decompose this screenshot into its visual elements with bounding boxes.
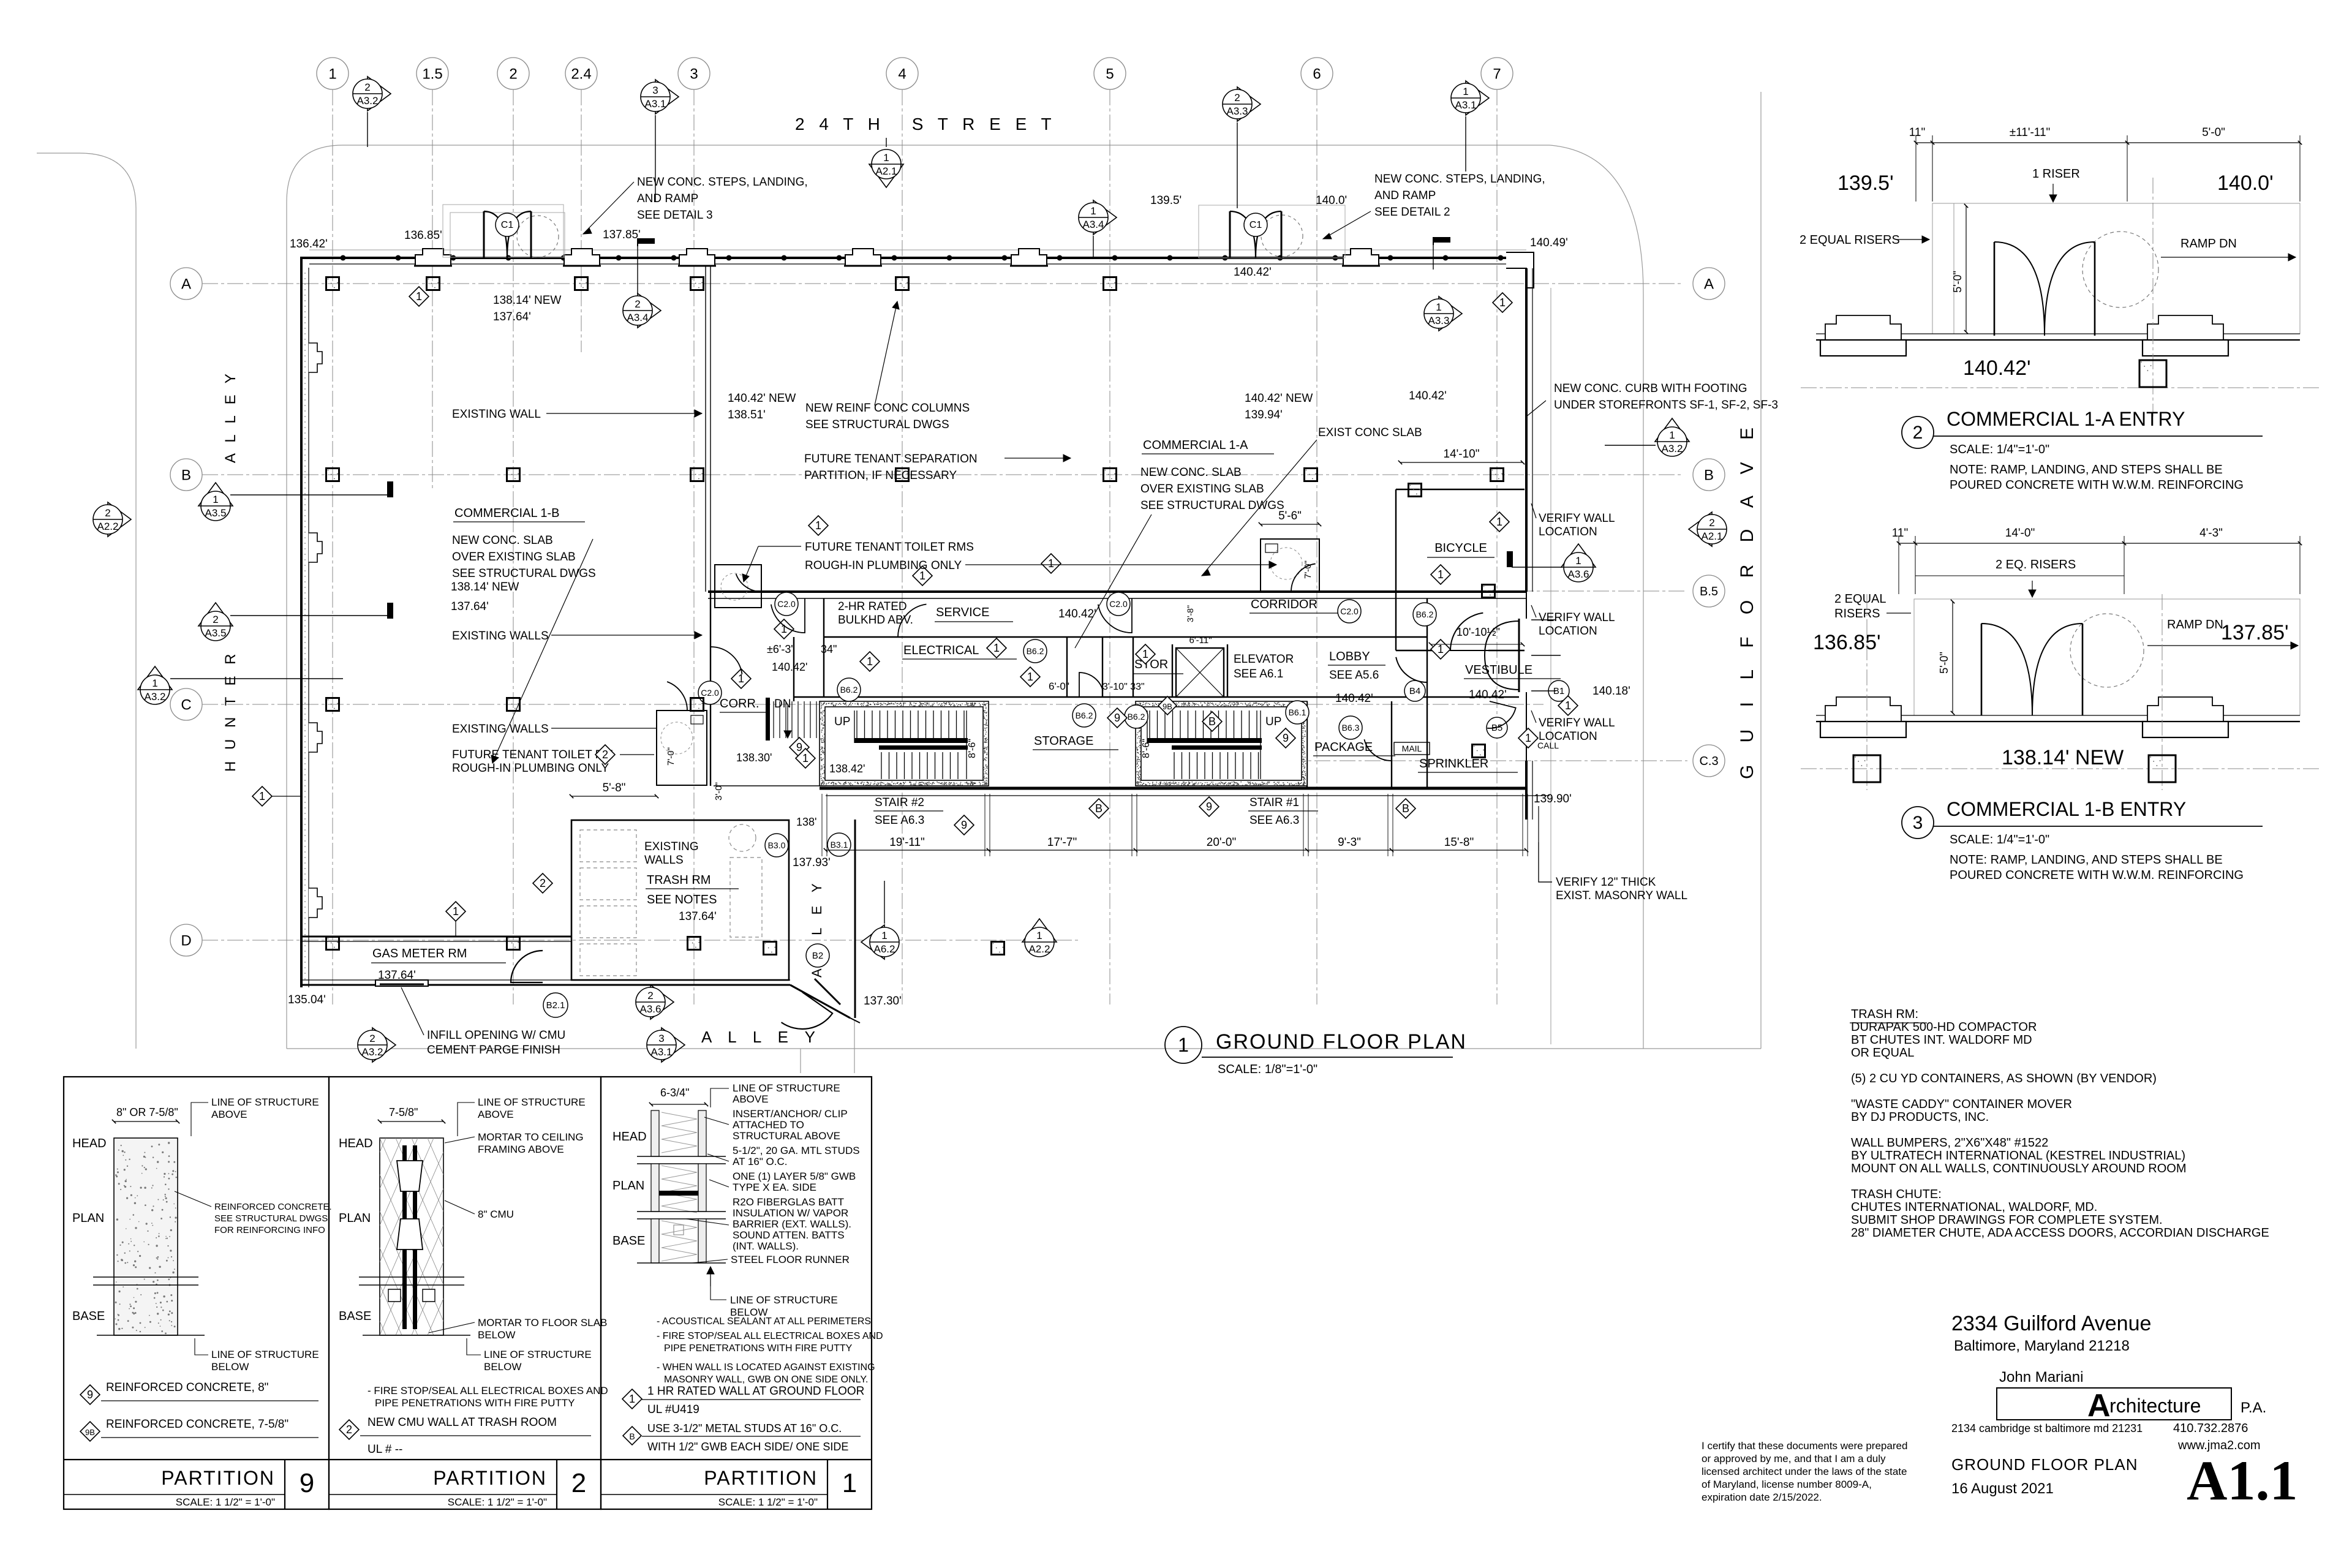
svg-text:34": 34" — [821, 643, 837, 655]
column at (543,1540) — [326, 937, 339, 950]
svg-text:SERVICE: SERVICE — [936, 606, 989, 619]
svg-text:139.90': 139.90' — [1534, 793, 1572, 805]
arrowhead det3 — [583, 228, 592, 234]
room label SPRINKLER — [1418, 757, 1518, 772]
svg-text:B: B — [181, 467, 191, 483]
svg-text:ABOVE: ABOVE — [211, 1109, 247, 1120]
keynote diamond 1 (left wall) — [252, 786, 272, 806]
corr door (C2.0 low) — [710, 647, 742, 679]
lobby-vestibule door (B4) — [1396, 650, 1427, 682]
svg-text:5: 5 — [1106, 66, 1114, 82]
core partition wall (package west) — [1306, 701, 1308, 788]
column at (1812,775) — [1104, 469, 1117, 481]
door tag B6.2 — [1413, 603, 1436, 626]
svg-text:B2: B2 — [812, 951, 823, 961]
svg-text:HEAD: HEAD — [612, 1130, 647, 1144]
svg-text:- FIRE STOP/SEAL ALL ELECTRICA: - FIRE STOP/SEAL ALL ELECTRICAL BOXES AN… — [657, 1331, 883, 1341]
note NEW CONC STEPS (det 2) — [1323, 173, 1545, 239]
svg-text:B: B — [1402, 802, 1409, 815]
detail 3 landing, doors and turning circle — [1914, 599, 2300, 715]
marker 1/A3.6 (right) — [1561, 544, 1596, 582]
core south wall — [714, 786, 1550, 796]
svg-text:2: 2 — [509, 66, 517, 82]
svg-text:SEE A6.3: SEE A6.3 — [875, 814, 924, 827]
door tag C2.0 — [1107, 592, 1130, 616]
svg-text:7: 7 — [1493, 66, 1501, 82]
svg-text:140.18': 140.18' — [1593, 685, 1630, 698]
partition detail panel 1 frame — [601, 1077, 872, 1509]
stem 1/A3.4 — [1093, 236, 1094, 258]
svg-text:2: 2 — [635, 298, 640, 310]
svg-text:WITH 1/2" GWB EACH SIDE/ ONE S: WITH 1/2" GWB EACH SIDE/ ONE SIDE — [647, 1441, 848, 1453]
svg-text:137.85': 137.85' — [603, 228, 641, 241]
bicycle room walls — [1396, 489, 1525, 650]
grid line 1.5 (vertical) — [432, 89, 433, 490]
svg-text:138.51': 138.51' — [728, 409, 766, 421]
svg-text:A: A — [1704, 276, 1714, 292]
grid line 2.4 (vertical) — [581, 89, 582, 352]
svg-text:1: 1 — [815, 519, 821, 532]
grid bubble 7 (top) — [1481, 58, 1513, 89]
svg-text:RISERS: RISERS — [1834, 607, 1880, 620]
svg-text:Baltimore, Maryland 21218: Baltimore, Maryland 21218 — [1954, 1338, 2130, 1354]
svg-text:1: 1 — [152, 677, 157, 689]
svg-text:C2.0: C2.0 — [1109, 599, 1128, 609]
panel 9 note REINFORCED CONCRETE — [175, 1191, 332, 1235]
column at (838,775) — [507, 469, 520, 481]
column at (543,1150) — [326, 698, 339, 711]
marker 2/A3.3 (top) — [1223, 87, 1261, 121]
trash room walls and (5) containers (dashed) — [571, 820, 789, 980]
svg-text:1: 1 — [1463, 86, 1468, 97]
svg-text:SCALE: 1/4"=1'-0": SCALE: 1/4"=1'-0" — [1950, 443, 2049, 456]
svg-text:STRUCTURAL ABOVE: STRUCTURAL ABOVE — [733, 1130, 840, 1142]
panel 1 dim 6-3/4 — [649, 1087, 708, 1106]
detail 2 grid line horizontal — [1801, 387, 2321, 388]
svg-text:1: 1 — [1565, 699, 1571, 712]
svg-text:EXISTING WALLS: EXISTING WALLS — [452, 723, 549, 736]
svg-text:1: 1 — [1438, 568, 1444, 581]
svg-text:or approved by me, and that I: or approved by me, and that I am a duly — [1702, 1453, 1886, 1464]
column at (949,463) — [575, 277, 588, 290]
svg-text:1: 1 — [781, 623, 787, 635]
svg-text:A3.6: A3.6 — [1568, 568, 1589, 580]
grid line 6 (vertical) — [1316, 89, 1317, 1005]
svg-text:2-HR RATED: 2-HR RATED — [838, 600, 907, 613]
svg-text:SOUND ATTEN. BATTS: SOUND ATTEN. BATTS — [733, 1229, 845, 1241]
grid bubble 3 (top) — [678, 58, 710, 89]
panel 2 CMU wall section — [157, 1138, 688, 1335]
door tag B6.2 — [1125, 705, 1148, 728]
svg-text:9: 9 — [300, 1468, 314, 1498]
svg-text:INFILL OPENING W/ CMU: INFILL OPENING W/ CMU — [427, 1029, 565, 1042]
svg-text:6'-11": 6'-11" — [1189, 635, 1212, 646]
bicycle room door — [1450, 613, 1488, 650]
svg-text:licensed architect under the l: licensed architect under the laws of the… — [1702, 1466, 1907, 1477]
core partition wall (stor west) — [1102, 637, 1103, 697]
svg-text:8" OR 7-5/8": 8" OR 7-5/8" — [116, 1106, 178, 1118]
marker 1/A2.1 (top) — [869, 149, 903, 187]
column at (2444,775) — [1491, 469, 1504, 481]
svg-text:1.5: 1.5 — [422, 66, 442, 82]
keynote diamond 1 — [860, 652, 880, 671]
svg-text:7'-0": 7'-0" — [666, 747, 676, 766]
column at (838,1150) — [507, 698, 520, 711]
exterior wall - west along Hunter alley — [301, 268, 322, 987]
svg-text:FUTURE TENANT TOILET RMS: FUTURE TENANT TOILET RMS — [805, 541, 974, 554]
room label SERVICE — [935, 606, 1013, 622]
arrow for 1-B slab — [491, 539, 593, 763]
grid bubble 2.4 (top) — [565, 58, 597, 89]
svg-text:A1.1: A1.1 — [2187, 1449, 2297, 1512]
svg-text:140.42': 140.42' — [1335, 692, 1373, 705]
room label BICYCLE — [1427, 541, 1494, 557]
svg-text:B3.1: B3.1 — [831, 840, 848, 850]
svg-text:A3.2: A3.2 — [362, 1046, 383, 1058]
svg-text:PLAN: PLAN — [339, 1212, 371, 1225]
storefront pier at x=1409 — [844, 249, 882, 266]
svg-text:AND RAMP: AND RAMP — [637, 192, 698, 205]
partition detail panel 9 frame — [64, 1077, 329, 1509]
svg-text:7'-0": 7'-0" — [1303, 560, 1313, 579]
svg-text:1: 1 — [1496, 516, 1502, 528]
benchmark flag 1 — [638, 238, 655, 246]
svg-text:3: 3 — [652, 85, 658, 96]
svg-text:GROUND FLOOR PLAN: GROUND FLOOR PLAN — [1951, 1455, 2138, 1474]
marker 1/A3.3 (below entry2) — [1424, 296, 1462, 331]
panel 1 leader notes — [686, 1082, 860, 1265]
marker 3/A3.1 (bottom) — [647, 1028, 685, 1062]
dimension string below core — [822, 794, 1528, 856]
svg-text:140.42' NEW: 140.42' NEW — [1245, 392, 1313, 405]
svg-text:PIPE PENETRATIONS WITH FIRE PU: PIPE PENETRATIONS WITH FIRE PUTTY — [375, 1397, 575, 1409]
grid line C (horizontal) — [202, 704, 1543, 705]
storefront pier at x=2222 — [1342, 249, 1380, 266]
svg-text:140.42': 140.42' — [1058, 608, 1096, 620]
detail 3 note — [1950, 853, 2244, 882]
svg-text:2 EQUAL RISERS: 2 EQUAL RISERS — [1800, 233, 1900, 247]
svg-text:A6.2: A6.2 — [874, 943, 895, 955]
note NEW CONC CURB — [1554, 382, 1778, 412]
svg-text:B6.2: B6.2 — [1027, 646, 1044, 656]
svg-text:rchitecture: rchitecture — [2109, 1395, 2201, 1417]
label FUTURE TENANT TOILET RM — [452, 748, 654, 775]
svg-text:3: 3 — [1913, 813, 1923, 833]
svg-text:2.4: 2.4 — [571, 66, 591, 82]
keynote diamond 1 (trash right) — [731, 669, 751, 688]
grid bubble 1 (top) — [317, 58, 349, 89]
column at (2414,1226) — [1472, 745, 1485, 758]
arrowhead det2 — [1323, 233, 1332, 239]
sprinkler door (B5) — [1487, 701, 1516, 728]
svg-text:A3.5: A3.5 — [205, 627, 227, 639]
svg-text:OVER EXISTING SLAB: OVER EXISTING SLAB — [452, 551, 576, 563]
svg-text:COMMERCIAL 1-A: COMMERCIAL 1-A — [1143, 439, 1248, 452]
dim 5-6 at 1-A toilet — [1259, 510, 1321, 526]
svg-text:9: 9 — [87, 1389, 93, 1401]
note VERIFY WALL LOCATION 2 — [1531, 605, 1615, 638]
note INFILL OPENING — [401, 987, 565, 1057]
plan title GROUND FLOOR PLAN — [1202, 1030, 1467, 1076]
grid line 4 (vertical) — [902, 89, 903, 1005]
svg-text:5-1/2", 20 GA. MTL STUDS: 5-1/2", 20 GA. MTL STUDS — [733, 1145, 860, 1156]
keynote diamond 9 — [1199, 797, 1219, 816]
storefront pier at x=1138 — [678, 249, 716, 266]
panel 9 keynote 9 — [80, 1381, 318, 1404]
detail 2 dim 5-0 vertical — [1951, 204, 1968, 334]
svg-text:1: 1 — [1669, 429, 1675, 441]
svg-text:A3.2: A3.2 — [357, 95, 379, 107]
svg-text:WALLS: WALLS — [644, 854, 684, 867]
svg-text:GROUND FLOOR PLAN: GROUND FLOOR PLAN — [1216, 1030, 1467, 1053]
svg-text:136.85': 136.85' — [1813, 631, 1880, 654]
svg-text:137.64': 137.64' — [493, 311, 531, 323]
svg-text:1: 1 — [1142, 648, 1148, 660]
svg-text:5'-0": 5'-0" — [1938, 652, 1950, 674]
svg-text:(5) 2 CU YD CONTAINERS, AS SHO: (5) 2 CU YD CONTAINERS, AS SHOWN (BY VEN… — [1851, 1072, 2157, 1085]
svg-text:NEW CONC. SLAB: NEW CONC. SLAB — [1140, 466, 1242, 479]
panel 2 note LINE OF STRUCTURE BELOW — [467, 1338, 592, 1373]
room label TRASH RM SEE NOTES — [646, 873, 739, 907]
exterior wall - storefront along 24th Street — [309, 250, 1526, 264]
storefront pier at x=1680 — [1010, 249, 1048, 266]
label EXISTING WALLS 2 + leader — [452, 723, 657, 736]
package door (B6.3) — [1364, 733, 1392, 761]
keynote diamond 9 — [1276, 728, 1295, 748]
exterior wall - east along Guilford Ave — [1506, 252, 1534, 820]
panel 9 keynote 9B — [80, 1418, 318, 1441]
leader kd1 gas — [455, 921, 456, 937]
grid bubble A (left) — [170, 268, 202, 300]
panel 1 keynote B — [623, 1422, 861, 1453]
grid bubble D (left) — [170, 924, 202, 956]
svg-text:"WASTE CADDY" CONTAINER MOVER: "WASTE CADDY" CONTAINER MOVER — [1851, 1098, 2072, 1111]
svg-text:15'-8": 15'-8" — [1444, 836, 1474, 849]
svg-text:BASE: BASE — [72, 1310, 105, 1323]
door tag B6.2 — [1072, 704, 1096, 727]
svg-text:139.5': 139.5' — [1150, 194, 1182, 207]
svg-text:UL # --: UL # -- — [367, 1443, 402, 1456]
svg-text:140.42': 140.42' — [1234, 266, 1272, 279]
marker 2/A3.2 (bottom) — [358, 1028, 396, 1062]
svg-text:9: 9 — [1114, 712, 1120, 724]
svg-text:138.30': 138.30' — [736, 752, 772, 764]
corridor stair DN treads — [766, 698, 816, 741]
panel 2 note MORTAR TO FLOOR SLAB — [429, 1317, 607, 1341]
svg-text:ATTACHED TO: ATTACHED TO — [733, 1119, 804, 1131]
column at (1133,1540) — [688, 937, 701, 950]
arrow conc columns — [875, 301, 899, 405]
leader curb — [1526, 401, 1546, 417]
door tag B4 — [1404, 680, 1425, 701]
column at (1257,1548) — [764, 942, 777, 955]
svg-text:ELECTRICAL: ELECTRICAL — [903, 644, 979, 657]
top-left corner wall jog — [301, 258, 309, 268]
svg-text:LINE OF STRUCTURE: LINE OF STRUCTURE — [484, 1349, 592, 1360]
grid bubble C (left) — [170, 688, 202, 720]
marker 2/A3.6 (bottom) — [636, 985, 674, 1019]
svg-text:VERIFY 12" THICK: VERIFY 12" THICK — [1556, 876, 1656, 889]
svg-text:3'-10" 33": 3'-10" 33" — [1102, 682, 1145, 692]
svg-text:A3.3: A3.3 — [1227, 105, 1248, 117]
svg-text:±11'-11": ±11'-11" — [2010, 126, 2051, 139]
stem 1/A3.1 — [1465, 116, 1466, 171]
svg-text:NOTE: RAMP, LANDING, AND STEPS: NOTE: RAMP, LANDING, AND STEPS SHALL BE — [1950, 463, 2223, 477]
svg-text:C2.0: C2.0 — [701, 688, 719, 698]
grid line D (horizontal) — [202, 940, 1078, 941]
svg-text:B: B — [629, 1431, 635, 1441]
svg-text:TYPE X EA. SIDE: TYPE X EA. SIDE — [733, 1182, 816, 1193]
grid line 1 (vertical) — [332, 89, 333, 1005]
svg-text:PIPE PENETRATIONS WITH FIRE PU: PIPE PENETRATIONS WITH FIRE PUTTY — [664, 1343, 853, 1354]
core partition wall (elevator east) — [1227, 644, 1228, 697]
column at (707,463) — [427, 277, 440, 290]
svg-text:A3.1: A3.1 — [1455, 99, 1477, 111]
keynote diamond 1 — [796, 748, 815, 768]
marker 1/A3.5 — [198, 483, 233, 521]
svg-text:BY DJ PRODUCTS, INC.: BY DJ PRODUCTS, INC. — [1851, 1110, 1989, 1124]
svg-text:SUBMIT SHOP DRAWINGS FOR COMPL: SUBMIT SHOP DRAWINGS FOR COMPLETE SYSTEM… — [1851, 1213, 2163, 1227]
svg-text:A3.6: A3.6 — [640, 1003, 661, 1015]
svg-text:ABOVE: ABOVE — [478, 1109, 514, 1120]
label EXISTING WALLS (trash) — [644, 840, 699, 867]
svg-text:10'-10½": 10'-10½" — [1457, 626, 1500, 638]
svg-text:MOUNT ON ALL WALLS, CONTINUOUS: MOUNT ON ALL WALLS, CONTINUOUSLY AROUND … — [1851, 1162, 2187, 1175]
svg-text:17'-7": 17'-7" — [1047, 836, 1077, 849]
svg-text:8" CMU: 8" CMU — [478, 1208, 514, 1220]
benchmark flag 2 — [1433, 237, 1450, 245]
svg-text:BASE: BASE — [339, 1310, 371, 1323]
stor door — [1079, 673, 1103, 697]
svg-text:OR EQUAL: OR EQUAL — [1851, 1046, 1914, 1060]
svg-text:NEW CONC. SLAB: NEW CONC. SLAB — [452, 534, 553, 547]
stem 2/A3.3 — [1237, 123, 1238, 208]
svg-text:SEE DETAIL 2: SEE DETAIL 2 — [1374, 206, 1450, 219]
label MAIL — [1394, 742, 1430, 755]
note VERIFY 12 THICK — [1556, 876, 1687, 902]
svg-text:FOR REINFORCING INFO: FOR REINFORCING INFO — [214, 1225, 325, 1235]
label COMMERCIAL 1-A — [1142, 439, 1274, 454]
keynote diamond 1 — [1490, 512, 1509, 532]
core partition wall (electrical west) — [823, 598, 824, 697]
svg-text:BT CHUTES INT. WALDORF MD: BT CHUTES INT. WALDORF MD — [1851, 1033, 2032, 1047]
svg-text:B: B — [1208, 715, 1216, 728]
grid bubble 2 (top) — [497, 58, 529, 89]
stem A6.2 — [884, 881, 885, 924]
svg-text:1: 1 — [416, 290, 422, 303]
svg-text:28" DIAMETER CHUTE, ADA ACCESS: 28" DIAMETER CHUTE, ADA ACCESS DOORS, AC… — [1851, 1226, 2269, 1240]
column at (838,1540) — [507, 937, 520, 950]
dim 5-8 — [570, 782, 658, 798]
svg-text:1 HR RATED WALL AT GROUND FLOO: 1 HR RATED WALL AT GROUND FLOOR — [647, 1385, 864, 1398]
grid bubble A (right) — [1693, 268, 1725, 300]
room label CORR. — [720, 697, 767, 712]
svg-text:EXISTING WALLS: EXISTING WALLS — [452, 630, 549, 643]
keynote diamond 1 — [409, 287, 429, 306]
svg-text:A L L E Y: A L L E Y — [222, 370, 239, 463]
svg-text:A3.1: A3.1 — [645, 98, 666, 110]
svg-text:137.93': 137.93' — [793, 856, 831, 869]
column at (1138,1150) — [691, 698, 704, 711]
keynote diamond 2 (trash west) — [533, 873, 552, 893]
svg-text:140.42': 140.42' — [1409, 390, 1447, 402]
svg-text:2: 2 — [1913, 423, 1923, 443]
svg-text:RAMP DN: RAMP DN — [2167, 618, 2223, 631]
future tenant toilet room (1-A side) — [1261, 539, 1319, 592]
leader 139.90 to verify12 — [1539, 806, 1552, 882]
svg-text:140.0': 140.0' — [1316, 194, 1347, 207]
svg-text:AT 16" O.C.: AT 16" O.C. — [733, 1156, 788, 1167]
east storefront inset at vestibule — [1519, 592, 1526, 761]
svg-text:9B: 9B — [85, 1428, 95, 1437]
column at (1629,1548) — [992, 942, 1005, 955]
svg-text:137.64': 137.64' — [378, 969, 416, 982]
svg-text:138.14' NEW: 138.14' NEW — [2002, 746, 2124, 769]
svg-text:ROUGH-IN PLUMBING ONLY: ROUGH-IN PLUMBING ONLY — [452, 762, 609, 775]
keynote diamond 9 — [1107, 708, 1127, 728]
svg-text:14'-0": 14'-0" — [2005, 527, 2035, 540]
svg-text:B: B — [1095, 802, 1102, 815]
svg-text:BELOW: BELOW — [211, 1361, 249, 1373]
svg-text:9: 9 — [961, 819, 967, 831]
grid line 5 (vertical) — [1109, 89, 1110, 1005]
svg-text:1: 1 — [1575, 555, 1581, 567]
svg-text:8'-6": 8'-6" — [967, 739, 978, 758]
label EXISTING WALL + leader — [452, 408, 702, 421]
svg-text:ELEVATOR: ELEVATOR — [1234, 653, 1294, 666]
svg-text:ABOVE: ABOVE — [733, 1093, 769, 1105]
svg-text:A3.2: A3.2 — [1662, 443, 1683, 454]
svg-text:expiration date 2/15/2022.: expiration date 2/15/2022. — [1702, 1491, 1822, 1503]
note NEW CONC SLAB (1-A) — [1140, 466, 1284, 512]
svg-text:UP: UP — [1265, 715, 1281, 728]
svg-text:FUTURE TENANT SEPARATION: FUTURE TENANT SEPARATION — [804, 453, 978, 466]
svg-text:136.42': 136.42' — [290, 238, 328, 251]
grid line 2 (vertical) — [513, 89, 514, 1005]
core north wall — [708, 592, 1526, 598]
core partition wall (corr west) — [710, 592, 711, 786]
svg-text:A3.3: A3.3 — [1428, 315, 1450, 326]
core partition wall (elevator west) — [1172, 644, 1173, 697]
svg-text:TRASH CHUTE:: TRASH CHUTE: — [1851, 1188, 1942, 1201]
svg-text:NEW CMU WALL AT TRASH ROOM: NEW CMU WALL AT TRASH ROOM — [367, 1416, 557, 1429]
detail 2 landing, doors and turning circle — [1932, 203, 2300, 336]
guilford entry steps — [1531, 620, 1561, 691]
svg-text:PARTITION: PARTITION — [161, 1467, 275, 1489]
svg-text:140.42': 140.42' — [1469, 688, 1507, 701]
keynote diamond 2 (trash north) — [595, 745, 615, 764]
grid line B (horizontal) — [202, 474, 1681, 475]
logo box Architecture P.A. — [1997, 1388, 2266, 1423]
svg-text:STORAGE: STORAGE — [1034, 734, 1093, 748]
svg-text:SEE DETAIL 3: SEE DETAIL 3 — [637, 209, 713, 222]
svg-text:1: 1 — [1436, 301, 1441, 313]
svg-text:UNDER STOREFRONTS SF-1, SF-2,: UNDER STOREFRONTS SF-1, SF-2, SF-3 — [1554, 399, 1778, 412]
leader kd1 left — [272, 796, 301, 797]
keynote diamond B — [1202, 712, 1222, 731]
marker 2/A3.2 (top) — [353, 77, 391, 111]
core partition wall (electrical east) — [1066, 637, 1068, 697]
svg-text:C2.0: C2.0 — [1340, 606, 1359, 616]
svg-text:138.14' NEW: 138.14' NEW — [451, 581, 519, 594]
elevation 140.42 NEW / 139.94 — [1245, 392, 1313, 421]
svg-text:3'-0": 3'-0" — [714, 782, 724, 801]
keynote diamond 1 — [1431, 565, 1450, 584]
panel 2 dim 7-5/8 — [378, 1106, 445, 1123]
detail 3 grid line vertical 1 — [1866, 594, 1868, 790]
column at (1473,775) — [896, 469, 909, 481]
elevation 140.42 NEW / 138.51 — [728, 392, 796, 421]
